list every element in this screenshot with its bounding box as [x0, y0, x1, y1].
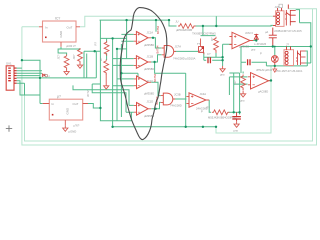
- op-amp IC2D: [134, 96, 159, 118]
- wire row y38.4: [100, 38, 126, 42]
- junction node (100.4,108): [99, 107, 101, 109]
- ground under R5: [105, 74, 107, 84]
- wire IC1 out up over to relay K1: [80, 16, 273, 27]
- junction node (310.8,46.5): [310, 45, 312, 47]
- svg-text:J?: J?: [286, 42, 289, 46]
- capacitor C3: [248, 59, 250, 65]
- junction node (272.8,46.5): [272, 45, 274, 47]
- wire to resistor R1 and relay coil: [169, 16, 273, 35]
- op-amp IC2B: [134, 45, 160, 71]
- junction node (274.8,65.9): [274, 65, 276, 67]
- connector SV1: [6, 62, 17, 91]
- wire relay feed y46.5: [241, 47, 311, 63]
- svg-text:JP5LM µPnO: JP5LM µPnO: [256, 68, 272, 72]
- ground small below D2: [273, 66, 277, 72]
- junction node (94.7,51.2): [94, 50, 96, 52]
- diode D1 small with circle: [42, 74, 50, 78]
- junction node (216,126.8): [215, 126, 217, 128]
- wire gate2 out to cmp3: [174, 98, 186, 100]
- junction node (222.6,60.2): [221, 59, 223, 61]
- resistor R6: [214, 37, 219, 52]
- wire relay K1 right contacts: [296, 10, 311, 63]
- ground under R3: [77, 62, 82, 68]
- wire R8 right to cap: [228, 111, 239, 113]
- resistor R2: [64, 55, 69, 70]
- wire vertical x185.7: [185, 73, 187, 127]
- junction node (216.3,26): [215, 25, 217, 27]
- junction node (202.9,26): [202, 25, 204, 27]
- svg-text:JC?2: JC?2: [86, 90, 90, 97]
- wire R6 bottom to cross: [204, 53, 223, 57]
- svg-text:BAT54: BAT54: [156, 25, 160, 34]
- junction node (126.6,20.1): [125, 19, 127, 21]
- wire box2 in: [40, 103, 43, 105]
- svg-text:JC?: JC?: [57, 54, 61, 59]
- wire Q2 drain top: [201, 35, 216, 37]
- resistor R7: [241, 75, 246, 90]
- svg-text:µno: µno: [251, 49, 256, 52]
- capacitor C1: [208, 57, 210, 63]
- svg-text:µno: µno: [240, 100, 245, 103]
- comparator IC6A: [229, 31, 253, 49]
- comparator IC6B: [248, 73, 272, 94]
- wire op-amp B inputs: [113, 59, 134, 66]
- relay K2: [284, 42, 306, 65]
- wire y20 distribution: [100, 19, 170, 21]
- op-amp IC2A: [134, 25, 160, 46]
- wire verticals x233 x239: [229, 73, 239, 115]
- svg-text:JC1D: JC1D: [147, 100, 154, 104]
- wire R7 top: [242, 72, 244, 74]
- junction node (185.7,126.8): [185, 126, 187, 128]
- wire bundle vertical x121.4: [120, 44, 122, 117]
- resistor R3: [78, 48, 83, 63]
- wire op-amp D out to gate2: [151, 102, 161, 108]
- wire feed D inputs: [73, 84, 129, 112]
- mosfet Q2: [197, 39, 204, 55]
- junction node (256.3,40.5): [255, 39, 257, 41]
- wire y73.2 feed: [121, 62, 185, 79]
- wire drop x153.5: [155, 20, 157, 32]
- svg-text:IC?: IC?: [55, 17, 60, 21]
- junction node (169,20.1): [168, 19, 170, 21]
- svg-text:µM358D: µM358D: [144, 91, 154, 95]
- svg-text:µC00 J?: µC00 J?: [66, 44, 76, 48]
- svg-text:o JP10/26: o JP10/26: [254, 42, 267, 46]
- junction node (112.6,38.4): [111, 37, 113, 39]
- svg-text:µA: µA: [265, 31, 268, 34]
- wire to R2 top: [61, 47, 80, 50]
- svg-text:In: In: [45, 25, 48, 29]
- wire op-amp C inputs: [113, 79, 134, 86]
- wire box2 out: [88, 104, 100, 109]
- wire sv1 pin fan: [17, 68, 97, 95]
- capacitor C5: [265, 28, 277, 47]
- svg-text:74AC08D µSD10A: 74AC08D µSD10A: [173, 57, 196, 61]
- wire bottom y126.8: [113, 126, 216, 128]
- svg-text:BAT54: BAT54: [156, 45, 160, 54]
- wire x100 long vertical: [100, 20, 131, 121]
- junction node (202.9,126.8): [202, 126, 204, 128]
- svg-text:GND: GND: [66, 107, 70, 115]
- svg-text:µno: µno: [220, 74, 225, 77]
- IC5 regulator box 2: [43, 95, 88, 126]
- junction node (274.8,46.5): [274, 46, 276, 48]
- svg-text:R?: R?: [99, 57, 103, 61]
- wire cmp1 out: [250, 40, 256, 42]
- svg-text:µ?: µ?: [57, 95, 61, 99]
- wire gate1 out to Q2: [174, 50, 198, 52]
- capacitor C4: [232, 117, 241, 119]
- svg-text:µM358D: µM358D: [144, 43, 154, 47]
- svg-text:JX0B1CM?-07-U5-0C5: JX0B1CM?-07-U5-0C5: [274, 29, 302, 33]
- ground under IC5: [63, 125, 68, 131]
- svg-text:SV1: SV1: [6, 62, 12, 66]
- svg-text:OuT: OuT: [73, 102, 79, 106]
- junction node (271,80.5): [270, 79, 272, 81]
- junction node (121.4,73.2): [120, 72, 122, 74]
- diode D4: [254, 34, 258, 41]
- svg-text:JC1A: JC1A: [147, 31, 154, 35]
- junction node (153,37.8): [152, 37, 154, 39]
- junction node (117,48.9): [116, 48, 118, 50]
- wire bundle vertical x117: [116, 49, 118, 121]
- svg-text:GND: GND: [59, 30, 63, 38]
- relay K1: [273, 4, 302, 33]
- svg-text:JC1B: JC1B: [147, 55, 154, 59]
- svg-text:P: P: [260, 52, 262, 56]
- svg-text:JC1C: JC1C: [147, 79, 154, 83]
- svg-text:74AC08D: 74AC08D: [170, 104, 182, 108]
- svg-text:µAC08D: µAC08D: [258, 90, 268, 94]
- wire IC1 gnd path: [58, 47, 67, 55]
- svg-text:OuT: OuT: [67, 25, 73, 29]
- wire input to IC1: [22, 26, 39, 28]
- svg-text:R?: R?: [94, 41, 98, 45]
- wire x271 long vertical to bottom: [216, 66, 271, 133]
- wire op-amp B out to gate1: [151, 55, 162, 62]
- svg-text:µM393D: µM393D: [239, 44, 249, 48]
- diode D2 circle: [271, 56, 278, 66]
- svg-text:P: P: [201, 110, 203, 114]
- svg-text:µM358D: µM358D: [144, 67, 154, 71]
- svg-text:J5C-1M?-07-U5-04C1: J5C-1M?-07-U5-04C1: [276, 69, 303, 73]
- svg-text:µno: µno: [234, 129, 239, 132]
- svg-text:C?: C?: [207, 52, 211, 56]
- wire R5 link: [117, 48, 127, 50]
- wire cross row y51.2: [84, 50, 100, 52]
- wire cap row y62.3: [241, 62, 266, 66]
- junction node (222.6,57.2): [221, 56, 223, 58]
- junction node (21.9,60.2): [21, 59, 23, 61]
- wire op-amp A inputs: [121, 34, 133, 41]
- annotation blob: [120, 8, 167, 140]
- svg-text:T?: T?: [197, 42, 201, 46]
- wire cap C1 row: [204, 59, 223, 61]
- wire Q2 source down: [203, 53, 205, 61]
- junction node (239.6,112.3): [238, 111, 240, 113]
- ground below C1 row: [220, 66, 225, 72]
- wire cmp2 out: [269, 80, 272, 82]
- svg-text:µGND: µGND: [69, 130, 77, 134]
- origin cross: [6, 125, 12, 131]
- wire cmp1 input2: [223, 44, 232, 66]
- wire cmp3 out to R8: [209, 100, 211, 113]
- AND gate IC3B: [161, 93, 182, 108]
- svg-text:In: In: [52, 102, 55, 106]
- comparator IC4A: [186, 92, 209, 114]
- AND gate IC3A: [162, 45, 196, 61]
- svg-text:JR?: JR?: [72, 54, 76, 59]
- ground under R7: [241, 91, 246, 97]
- svg-text:R?: R?: [233, 80, 237, 84]
- wire x96.3 vertical: [95, 51, 97, 78]
- junction node (156,20.1): [155, 19, 157, 21]
- junction node (40,77.9): [39, 77, 41, 79]
- svg-text:µ?0?: µ?0?: [74, 123, 80, 127]
- ground under C4: [234, 121, 239, 127]
- svg-text:?XX0B?1C00?RW5: ?XX0B?1C00?RW5: [192, 31, 216, 35]
- svg-text:JU: JU: [175, 21, 178, 24]
- wire inner bottom rail: [25, 9, 313, 141]
- IC1 regulator box: [39, 17, 80, 47]
- wire top outer rail: [22, 9, 317, 145]
- wire R4 R5 mid: [105, 53, 107, 60]
- wire op-amp A out: [151, 38, 162, 48]
- resistor R4: [104, 41, 109, 56]
- svg-text:JU?: JU?: [275, 5, 280, 9]
- svg-text:JC?A: JC?A: [175, 45, 182, 49]
- junction node (233.7,112.3): [233, 111, 235, 113]
- svg-text:JC4A: JC4A: [200, 92, 207, 96]
- resistor R5: [104, 60, 109, 75]
- wire drop x127.4: [126, 20, 128, 58]
- wire bundle vertical x112.6: [112, 38, 114, 126]
- junction node (154.6,62): [153, 61, 155, 63]
- svg-text:R?: R?: [210, 37, 214, 41]
- svg-text:BAT54: BAT54: [153, 73, 157, 82]
- wire junction row y60.2: [22, 60, 40, 103]
- svg-text:JCM 3: JCM 3: [245, 31, 253, 35]
- resistor R8: [212, 110, 230, 115]
- wire relay K2 right contacts: [306, 51, 311, 66]
- svg-text:P?: P?: [207, 106, 211, 110]
- junction node (155.6,108.8): [154, 108, 156, 110]
- wire op-amp C out to gate2: [151, 82, 161, 95]
- junction node (112.6,126.8): [111, 126, 113, 128]
- wire cmp2 inputs: [229, 77, 247, 95]
- wire vertical x86.7: [86, 54, 88, 78]
- op-amp IC2C: [134, 73, 157, 95]
- ground under R2: [64, 69, 69, 75]
- wire vertical x84: [83, 51, 85, 78]
- svg-text:µR5342K00B: µR5342K00B: [176, 28, 192, 32]
- svg-text:JC3B: JC3B: [174, 93, 181, 97]
- wire op-amp D inputs: [126, 105, 134, 112]
- resistor R1: [178, 24, 196, 29]
